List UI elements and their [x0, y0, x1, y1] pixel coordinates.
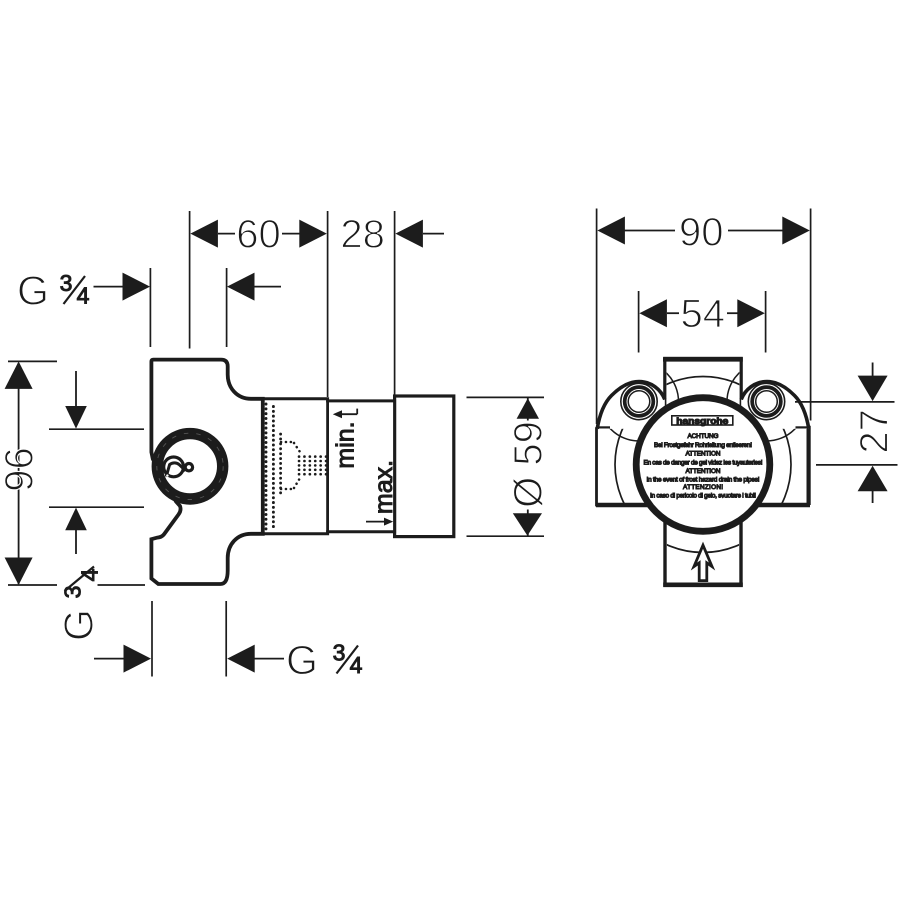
- dotted knurl column B: [272, 407, 275, 528]
- left screw boss: [621, 383, 657, 419]
- svg-text:ACHTUNG: ACHTUNG: [688, 433, 719, 440]
- svg-text:96: 96: [0, 447, 42, 492]
- svg-text:G: G: [286, 637, 318, 683]
- section line at min wall: [326, 399, 329, 534]
- band right edge thick: [806, 426, 810, 505]
- band bottom edge thick: [596, 503, 810, 507]
- right shoulder outline: [741, 382, 809, 429]
- dim 60: extension line right: [327, 211, 329, 397]
- dim 27: extension lines: [795, 401, 895, 403]
- top port top edge thick: [663, 357, 743, 361]
- lever drop dot: [166, 474, 168, 476]
- dim rear port: rotated G3/4 label: [56, 568, 103, 641]
- svg-text:G: G: [56, 609, 102, 641]
- dim rear port: extension lines: [49, 428, 144, 430]
- dim G3/4 bottom: label: [286, 637, 363, 683]
- svg-text:max.: max.: [370, 460, 398, 514]
- svg-text:Ø 59: Ø 59: [507, 421, 551, 508]
- aux circle around left boss: [600, 362, 679, 441]
- dim 27: arrows: [858, 363, 888, 504]
- dim G3/4 top: arrows: [94, 273, 282, 301]
- warning text block: [644, 433, 763, 499]
- hansgrohe logo box: [672, 416, 733, 425]
- dashed thread circle inside ring: [157, 433, 223, 499]
- min arrow: [333, 409, 357, 419]
- svg-text:4: 4: [77, 283, 90, 309]
- dim 90: arrows: [597, 217, 809, 245]
- dotted spindle funnel top: [281, 442, 300, 452]
- svg-text:28: 28: [340, 213, 385, 257]
- shut-off handle circle: [164, 457, 184, 477]
- max arrow: [366, 518, 393, 526]
- aux circle around right boss: [727, 362, 806, 441]
- bottom port bottom edge thick: [663, 582, 743, 587]
- svg-text:ATTENTION: ATTENTION: [686, 468, 721, 475]
- svg-text:En cas de danger de gel videz: En cas de danger de gel videz les tuyaut…: [644, 460, 763, 467]
- svg-text:90: 90: [679, 211, 724, 255]
- wall plate circle (thin): [615, 377, 791, 553]
- dim rear port: arrows: [65, 371, 87, 554]
- port ring (rear G3/4 port): [157, 434, 222, 499]
- svg-text:In the event of frost hazard d: In the event of frost hazard drain the p…: [647, 476, 760, 483]
- flow arrow: [694, 545, 712, 580]
- dim G3/4 top: label: [17, 268, 90, 314]
- left shoulder outline: [597, 382, 665, 429]
- svg-text:3: 3: [333, 640, 346, 666]
- dim 60 arrows and text: [190, 220, 326, 248]
- dim Ø59: extension lines: [467, 396, 545, 398]
- dim 60: extension line left (center line): [189, 211, 191, 349]
- svg-text:3: 3: [60, 270, 73, 296]
- dim 28: extension line right: [394, 211, 396, 395]
- dim Ø59: arrows: [513, 398, 542, 536]
- left shoulder: [597, 382, 665, 429]
- flange plate body: [151, 360, 262, 584]
- top port: [665, 358, 741, 430]
- svg-text:min.: min.: [332, 421, 360, 468]
- dim 54: extension lines: [638, 291, 640, 353]
- dim 96: vertical line with arrows: [5, 361, 33, 585]
- svg-text:60: 60: [236, 213, 281, 257]
- dotted spindle flange column: [279, 434, 282, 497]
- dim G3/4 top: extension lines: [149, 268, 151, 347]
- right shoulder: [741, 382, 809, 429]
- body band: [597, 427, 809, 505]
- dim 90: extension lines: [596, 209, 598, 425]
- svg-text:27: 27: [852, 409, 896, 454]
- svg-text:In caso di pericolo di gelo, s: In caso di pericolo di gelo, svuotare i …: [650, 493, 756, 500]
- dim G3/4 bottom: extension lines: [151, 601, 153, 677]
- svg-text:54: 54: [681, 292, 726, 336]
- spindle nub: [185, 464, 192, 471]
- svg-text:Bei Frostgefahr Rohrleitung en: Bei Frostgefahr Rohrleitung entleeren!: [654, 442, 752, 449]
- handle lever wave: [166, 463, 185, 477]
- dotted spindle shaft block: [299, 457, 327, 475]
- svg-text:hansgrohe: hansgrohe: [676, 416, 728, 426]
- dotted spindle funnel bottom: [281, 478, 300, 489]
- bottom port: [665, 500, 741, 585]
- cylinder body s1+s2: [263, 399, 395, 534]
- sleeve section s3 (outer sleeve): [395, 396, 454, 537]
- dim G3/4 bottom: arrows: [94, 645, 284, 673]
- dim 96: extension lines: [8, 360, 57, 362]
- svg-text:ATTENTION: ATTENTION: [686, 451, 721, 458]
- svg-text:G: G: [17, 268, 49, 314]
- sleeve circle (thick): [636, 398, 770, 532]
- right screw boss: [748, 383, 784, 419]
- svg-text:4: 4: [350, 652, 363, 678]
- svg-text:ATTENZION!: ATTENZION!: [683, 484, 723, 491]
- svg-text:3: 3: [60, 586, 86, 599]
- band top edge segments: [597, 426, 611, 428]
- dim 54: arrows: [639, 299, 764, 327]
- dotted knurl column A: [265, 404, 268, 529]
